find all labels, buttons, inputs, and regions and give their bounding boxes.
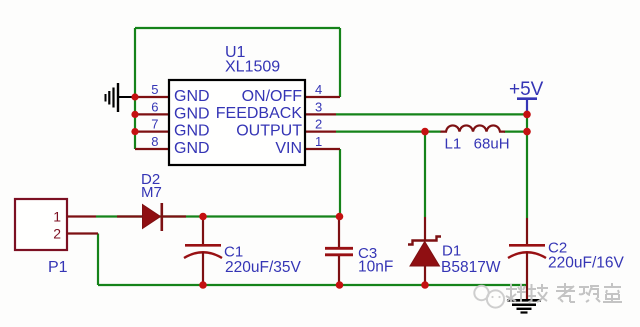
svg-text:220uF/16V: 220uF/16V — [548, 255, 624, 272]
node rail D1 junction — [421, 281, 429, 289]
pin stubs left of U1 — [135, 97, 169, 149]
node pin6 junction — [131, 111, 138, 118]
wire D1 branch vertical — [424, 132, 426, 217]
svg-text:GND: GND — [174, 88, 210, 105]
ground stem bottom right — [526, 285, 528, 300]
watermark text (stylized CJK strokes) — [506, 283, 622, 302]
+5V power port stem — [526, 99, 528, 114]
svg-text:B5817W: B5817W — [441, 259, 501, 276]
capacitor C1 bottom lead — [202, 252, 204, 285]
IC U1 body — [169, 80, 305, 165]
wire right vertical green to pin4 — [339, 28, 341, 97]
svg-text:220uF/35V: 220uF/35V — [225, 259, 301, 276]
svg-text:2: 2 — [53, 226, 61, 242]
svg-text:5: 5 — [151, 82, 158, 97]
capacitor C2 bottom curved plate — [508, 252, 546, 258]
capacitor C2 top lead — [526, 218, 528, 245]
diode D1 triangle — [410, 242, 440, 267]
node pin7 junction — [131, 128, 138, 135]
wire left vertical green (pin5-8 bus) — [134, 28, 136, 149]
wire feedback pin3 to +5V — [336, 113, 527, 115]
svg-text:FEEDBACK: FEEDBACK — [216, 105, 303, 122]
wire +5V node vertical — [526, 110, 528, 218]
P1 pin 2 stub — [67, 232, 98, 234]
svg-text:XL1509: XL1509 — [225, 59, 280, 76]
svg-text:D1: D1 — [442, 243, 461, 260]
wire input node horizontal — [96, 215, 340, 217]
svg-text:VIN: VIN — [275, 140, 302, 157]
svg-text:7: 7 — [151, 117, 158, 132]
capacitor C2 top plate — [509, 244, 545, 247]
svg-text:2: 2 — [315, 117, 322, 132]
P1 pin 1 stub — [67, 215, 96, 217]
diode D1 schottky cathode bar — [408, 237, 441, 245]
diode D1 top lead — [424, 217, 426, 240]
capacitor C3 top lead — [338, 217, 340, 248]
node rail C3 junction — [336, 281, 344, 289]
capacitor C3 bottom lead — [338, 256, 340, 285]
capacitor C1 bottom curved plate — [184, 252, 222, 258]
capacitor C1 top lead — [202, 217, 204, 245]
svg-text:10nF: 10nF — [358, 259, 393, 276]
watermark logo circle icon — [474, 286, 504, 308]
earth ground symbol bottom — [507, 299, 541, 302]
svg-text:P1: P1 — [48, 259, 68, 276]
svg-text:GND: GND — [174, 140, 210, 157]
connector P1 body — [15, 199, 67, 250]
svg-text:1: 1 — [315, 134, 322, 149]
node switch D1/L1 junction — [421, 128, 429, 136]
node input C3/VIN junction — [336, 213, 344, 221]
wire bottom ground rail — [98, 284, 527, 286]
svg-text:6: 6 — [151, 99, 158, 114]
wire vin down — [339, 149, 341, 217]
svg-text:OUTPUT: OUTPUT — [236, 123, 302, 140]
node input C1 junction — [199, 213, 207, 221]
svg-text:GND: GND — [174, 105, 210, 122]
wire P1 pin2 down — [97, 234, 99, 286]
svg-text:1: 1 — [53, 209, 61, 225]
node rail C1 junction — [199, 281, 207, 289]
svg-text:3: 3 — [315, 99, 322, 114]
svg-text:+5V: +5V — [509, 79, 544, 100]
diode D2 leads — [117, 215, 186, 217]
svg-text:8: 8 — [151, 134, 158, 149]
diode D1 bottom lead — [424, 266, 426, 285]
svg-text:L1 68uH: L1 68uH — [445, 136, 510, 153]
diode D2 triangle — [143, 205, 161, 229]
node +5V output junction — [523, 128, 531, 136]
svg-text:4: 4 — [315, 82, 322, 97]
wire output pin2 to inductor — [336, 131, 441, 133]
+5V power port bar — [517, 97, 537, 100]
capacitor C2 bottom lead — [526, 252, 528, 285]
svg-text:M7: M7 — [141, 184, 162, 201]
wire top rail green — [135, 27, 340, 29]
wire inductor to +5V node — [504, 131, 527, 133]
capacitor C1 top plate — [185, 244, 221, 247]
node +5V feedback junction — [523, 111, 531, 119]
pin stubs right of U1 — [305, 97, 340, 149]
capacitor C3 top plate — [325, 247, 353, 250]
svg-text:ON/OFF: ON/OFF — [242, 88, 303, 105]
ground symbol left (signal ground) — [118, 96, 133, 98]
capacitor C3 bottom plate — [325, 253, 353, 256]
svg-text:GND: GND — [174, 123, 210, 140]
inductor L1 coil — [441, 125, 506, 131]
node pin5 junction — [131, 93, 138, 100]
svg-text:C1: C1 — [224, 244, 243, 261]
diode D2 cathode bar — [161, 203, 164, 231]
